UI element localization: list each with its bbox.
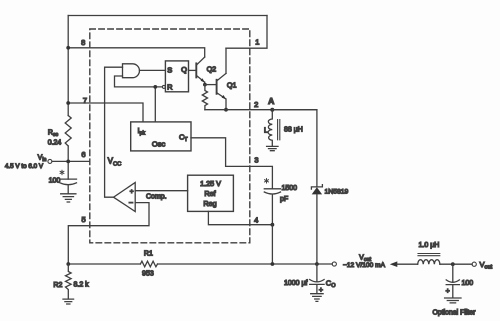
resistor R1: [140, 261, 157, 267]
node junction filter cap: [451, 262, 455, 266]
capacitor CO 1000uF: [310, 264, 324, 293]
terminal output left: [332, 262, 336, 266]
wire Vin to pin6: [52, 160, 89, 162]
svg-text:1000 μf: 1000 μf: [284, 280, 308, 287]
svg-text:Q1: Q1: [227, 81, 237, 90]
svg-text:+: +: [130, 188, 134, 195]
node junction rail diode: [315, 262, 319, 266]
wire pin8 rail: [68, 48, 205, 57]
resistor driver emitter: [202, 85, 207, 110]
ground R2: [63, 299, 74, 304]
svg-text:pF: pF: [280, 196, 288, 203]
svg-text:Q2: Q2: [207, 64, 217, 73]
svg-text:100: 100: [49, 178, 61, 185]
svg-text:Rsc: Rsc: [48, 130, 59, 139]
svg-text:0.24: 0.24: [48, 140, 62, 147]
and gate U1a: [123, 64, 140, 78]
svg-text:8.2 k: 8.2 k: [74, 282, 90, 289]
diode 1N5819: [311, 185, 322, 189]
svg-text:CT: CT: [179, 132, 188, 143]
wire comparator minus to pin5: [68, 203, 149, 264]
svg-text:3: 3: [254, 155, 258, 164]
reference regulator box: [188, 175, 234, 211]
svg-text:Q: Q: [181, 65, 187, 74]
wire left vertical bus: [67, 16, 69, 180]
node junction Q2 emitter / Q1 base: [203, 83, 207, 87]
oscillator box: [131, 122, 191, 151]
svg-text:A: A: [268, 96, 274, 106]
svg-text:6: 6: [81, 150, 85, 159]
node junction rail left: [66, 262, 70, 266]
svg-text:Reg: Reg: [203, 199, 216, 208]
svg-text:1: 1: [255, 38, 259, 47]
resistor Rsc: [65, 116, 71, 147]
svg-text:+: +: [446, 288, 450, 295]
svg-text:−: −: [129, 198, 134, 207]
wire pin2 rail: [205, 109, 317, 111]
svg-text:L: L: [264, 128, 268, 135]
node junction pin7: [66, 101, 70, 105]
svg-text:Ipk: Ipk: [138, 126, 146, 137]
svg-text:−12 V/100 mA: −12 V/100 mA: [343, 262, 386, 269]
wire gate output to latch S: [140, 69, 166, 71]
wire node A to diode: [272, 110, 317, 187]
ground CO: [311, 294, 323, 302]
svg-text:Ref: Ref: [204, 189, 215, 198]
node junction rail pin4: [271, 262, 275, 266]
svg-text:1500: 1500: [282, 185, 298, 192]
node junction Q1 emitter on pin2 rail: [224, 108, 228, 112]
svg-text:88 μH: 88 μH: [284, 127, 303, 134]
svg-text:CO: CO: [326, 279, 336, 290]
wire oscillator to R and gate lower input loop: [115, 76, 163, 122]
svg-text:R: R: [167, 83, 173, 92]
ground input cap: [61, 194, 76, 202]
ground filter cap: [445, 298, 461, 303]
arrow to output: [390, 261, 398, 267]
transistor Q2: [195, 63, 197, 77]
wire comparator output riser to gate input: [105, 67, 123, 197]
wire Q1 base: [205, 84, 217, 86]
IC dashed box MC34063: [90, 29, 250, 243]
wire ref reg to pin4: [208, 211, 272, 224]
svg-text:Comp.: Comp.: [146, 194, 167, 201]
capacitor 1500 pF: [264, 189, 280, 225]
wire CT to pin3: [191, 138, 272, 189]
resistor R2: [66, 264, 72, 299]
inverter bubble R input: [162, 85, 165, 88]
inductor core lines: [278, 120, 280, 140]
svg-text:1N5819: 1N5819: [325, 188, 349, 195]
svg-text:Vout: Vout: [480, 260, 493, 271]
svg-text:R1: R1: [144, 251, 153, 258]
terminal Vout right: [472, 262, 476, 266]
wire pin4 down to output rail: [271, 225, 273, 264]
node junction pin8: [66, 46, 70, 50]
svg-text:8: 8: [81, 38, 85, 47]
wire Q1 collector to pin1: [225, 48, 227, 73]
filter inductor core lines: [418, 254, 440, 256]
svg-text:953: 953: [142, 271, 154, 278]
terminal Vin: [48, 159, 52, 163]
ground inductor: [267, 146, 278, 150]
wire top supply rail: [68, 15, 267, 17]
latch box: [165, 61, 188, 92]
svg-text:R2: R2: [53, 282, 62, 289]
node junction pin4: [271, 223, 275, 227]
svg-text:Vin: Vin: [38, 155, 47, 164]
node junction A: [270, 108, 274, 112]
wire pin7 to Ipk: [68, 103, 143, 122]
wire Q output to Q2 base: [189, 69, 197, 71]
inductor 1.0 uH filter: [418, 260, 440, 265]
capacitor 100uF input: [60, 179, 77, 194]
node junction R input: [153, 85, 157, 89]
svg-text:Osc: Osc: [152, 140, 166, 149]
label * timing cap: [265, 179, 269, 183]
svg-text:2: 2: [254, 100, 258, 109]
svg-text:Optional Filter: Optional Filter: [433, 309, 477, 316]
comparator: [114, 183, 136, 212]
svg-text:5: 5: [82, 215, 86, 224]
svg-text:VCC: VCC: [108, 157, 122, 168]
transistor Q1: [216, 80, 218, 94]
wire comparator plus to ref: [135, 190, 187, 192]
label * input cap: [60, 170, 64, 174]
svg-text:100: 100: [462, 280, 474, 287]
svg-text:S: S: [167, 66, 172, 75]
svg-text:4.5 V to 6.0 V: 4.5 V to 6.0 V: [5, 163, 44, 170]
svg-text:1.25 V: 1.25 V: [200, 179, 221, 188]
inductor L 88uH: [268, 110, 272, 147]
svg-text:4: 4: [254, 216, 258, 225]
node junction pin6: [66, 160, 70, 164]
wire output rail: [68, 263, 332, 265]
svg-text:1.0 μH: 1.0 μH: [419, 242, 440, 249]
wire pin1 drop from top rail: [226, 16, 267, 49]
wire filter to terminal: [440, 263, 472, 265]
capacitor 100 filter: [446, 264, 459, 298]
svg-text:7: 7: [83, 96, 87, 105]
